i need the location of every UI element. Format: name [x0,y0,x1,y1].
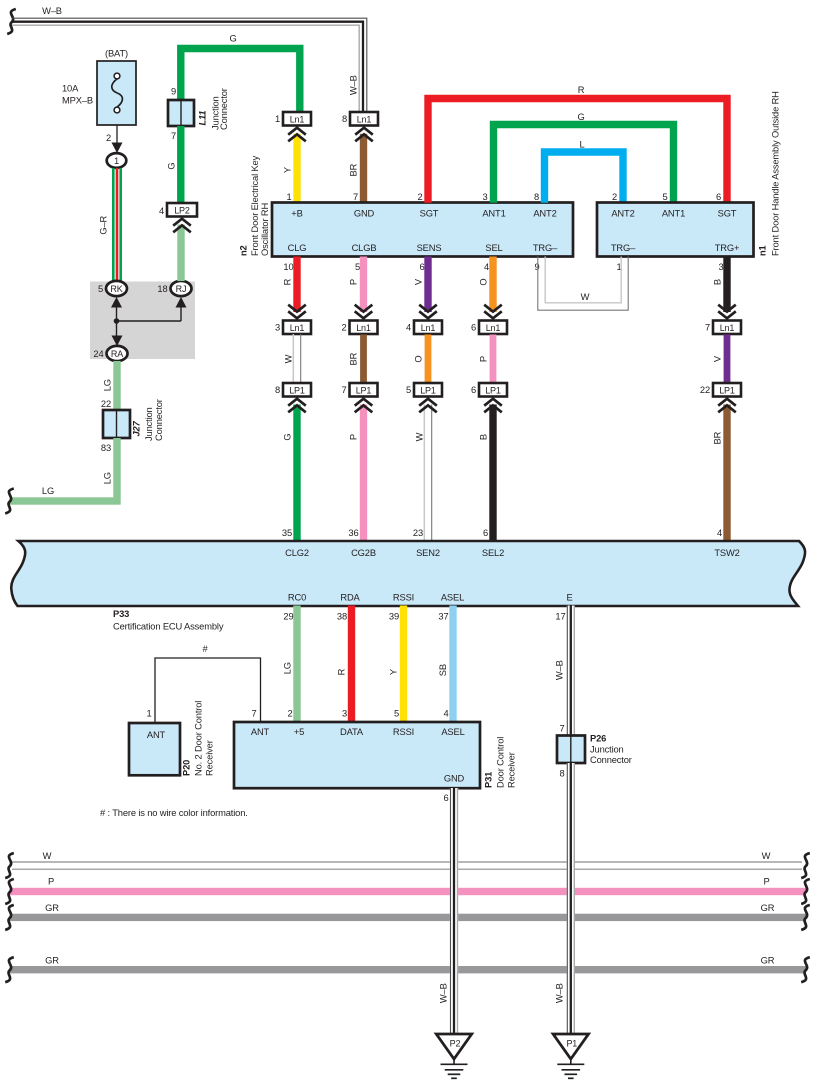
svg-text:Junction: Junction [144,407,154,441]
svg-text:1: 1 [114,156,119,166]
svg-text:W: W [43,851,52,861]
connector LP1 pin 5 [406,383,442,397]
wire P (bottom horizontal) [10,888,806,895]
pin 22 (J27) [101,399,111,409]
pin 5 (n1 ANT1) [662,192,667,202]
svg-text:1: 1 [275,114,280,124]
label W-B (P1 drop) [554,983,564,1003]
label W-B (E) [554,660,564,680]
label Y [282,166,292,173]
label GR (left 2) [45,956,59,966]
svg-text:1: 1 [286,192,291,202]
pin 29 (RC0) [283,612,293,622]
svg-text:W–B: W–B [348,75,358,95]
chevron to Ln1 pin 7 [718,305,736,319]
wire G (L11 up and over to Ln1 pin 1) [181,49,300,113]
wire W (TRG- link) [538,257,628,311]
svg-text:3: 3 [275,323,280,333]
svg-text:CG2B: CG2B [351,548,376,558]
pin 8 (P26) [559,769,564,779]
break symbols W wire [5,853,810,878]
label B (TRG+) [712,279,722,285]
svg-text:GR: GR [761,956,775,966]
chevron LP2 [173,219,191,233]
svg-text:ASEL: ASEL [441,593,464,603]
wire G (to CLG2) [293,405,300,541]
note about wire color [100,808,248,818]
connector Ln1 pin 4 [406,321,442,335]
svg-text:ANT2: ANT2 [533,209,556,219]
label W-B (GND drop upper) [438,983,448,1003]
svg-text:3: 3 [718,262,723,272]
svg-text:8: 8 [275,385,280,395]
wire W-B (P31 GND to ground P2) [450,788,458,1034]
internal wiring RK-RJ-RA with junction dot [111,297,187,346]
label SB (ASEL) [438,664,448,676]
svg-text:LG: LG [102,472,112,484]
label W-B (vertical drop) [348,75,358,95]
svg-text:Junction: Junction [590,745,624,755]
label J27 [131,399,164,441]
pin 1 (n1 TRG-) [616,262,621,272]
svg-text:10A: 10A [62,84,79,94]
svg-text:(BAT): (BAT) [105,49,128,59]
pin 5 (P31 RSSI) [394,709,399,719]
pin 7 (P31 ANT) [251,709,256,719]
wire B (to SEL2) [489,405,496,541]
pin 6 (n1 SGT) [716,192,721,202]
svg-text:R: R [578,85,585,95]
svg-text:CLGB: CLGB [352,243,377,253]
bus P33 Certification ECU Assembly (harness band) [11,541,805,606]
svg-text:Ln1: Ln1 [720,323,735,333]
junction connector P26 [557,736,585,764]
label GR (right 1) [761,903,775,913]
wire W (to SEN2) [424,405,431,541]
pin 37 (ASEL) [438,612,448,622]
pin 23 (SEN2) [413,528,423,538]
node 1 (connector joint) [107,153,127,168]
label O (col3) [413,356,423,363]
wire W (col1) [293,334,300,383]
svg-text:7: 7 [559,724,564,734]
svg-text:LG: LG [42,486,54,496]
svg-text:6: 6 [471,385,476,395]
svg-text:ANT1: ANT1 [662,209,685,219]
label BR (top) [348,163,358,176]
svg-text:GND: GND [354,209,375,219]
connector Ln1 pin 6 [471,321,507,335]
svg-text:Y: Y [282,166,292,173]
wire O (SEL) [489,257,496,313]
pin 7 (L11) [171,131,176,141]
wire break symbol left (LG) [5,489,14,514]
svg-text:7: 7 [171,131,176,141]
label P33 [113,609,224,632]
svg-text:5: 5 [394,709,399,719]
svg-text:B: B [712,279,722,285]
svg-text:Connector: Connector [154,399,164,441]
pin 7 (P26) [559,724,564,734]
svg-text:R: R [282,278,292,285]
svg-text:LP1: LP1 [356,385,372,395]
wire R (SGT link) [428,99,727,203]
svg-text:SGT: SGT [718,209,737,219]
junction connector J27 [103,410,130,438]
svg-text:5: 5 [355,262,360,272]
pin 6 (SEL2) [483,528,488,538]
label P (col4) [478,356,488,362]
pin 6 (P31 GND) [443,793,448,803]
pin 7 (n2 GND) [353,192,358,202]
pin 36 (CG2B) [348,528,358,538]
label GR (right 2) [761,956,775,966]
svg-text:P31: P31 [483,772,493,788]
svg-text:Oscillator RH: Oscillator RH [260,203,270,256]
connector Ln1 pin 2 [341,321,377,335]
svg-text:W: W [283,354,293,363]
wire LG (RC0) [293,606,300,723]
svg-text:BR: BR [712,431,722,444]
wire LG (LP2 to RJ) [177,225,184,282]
pin 6 (n2 SENS) [419,262,424,272]
svg-text:BR: BR [348,163,358,176]
svg-text:RC0: RC0 [288,593,306,603]
svg-text:7: 7 [251,709,256,719]
bus terminal labels (bottom row) [288,593,573,603]
svg-text:O: O [478,279,488,286]
svg-text:Connector: Connector [590,755,632,765]
chevron Ln1 pin 1 [288,128,306,142]
svg-text:2: 2 [106,133,111,143]
pin 2 (fuse output) [106,133,111,143]
junction connector L11 [168,100,194,126]
svg-text:Ln1: Ln1 [290,114,305,124]
label V (col5) [712,355,722,362]
pin 3 (n1 TRG+) [718,262,723,272]
label L (ANT2 link) [579,140,584,150]
pin 17 (E) [555,612,565,622]
label R (CLG) [282,278,292,285]
svg-text:39: 39 [389,612,399,622]
pin 5 (RK) [98,284,103,294]
svg-text:Front Door Electrical Key: Front Door Electrical Key [250,155,260,256]
svg-text:6: 6 [483,528,488,538]
pin 4 (P31 ASEL) [443,709,448,719]
pin 2 (P31 +5) [287,709,292,719]
svg-text:GND: GND [444,774,465,784]
label W (bottom right) [762,851,771,861]
connector Ln1 pin 1 (top) [275,112,311,126]
svg-text:5: 5 [98,284,103,294]
label W (bottom left) [43,851,52,861]
wire GR (bottom horizontal 1) [10,914,806,921]
label V (SENS) [413,278,423,285]
pin 10 (n2 CLG) [283,262,293,272]
pin 18 (RJ) [157,284,167,294]
svg-text:Receiver: Receiver [204,740,214,776]
pin 1 (n2 +B) [286,192,291,202]
node RJ [171,281,192,296]
svg-text:L: L [579,140,584,150]
svg-text:P: P [478,356,488,362]
label LG (horizontal) [42,486,54,496]
wire V (SENS) [424,257,431,313]
wire BR (GND feed) [360,134,367,203]
svg-text:2: 2 [287,709,292,719]
fuse 10A MPX-B (BAT) box [97,61,136,125]
svg-text:7: 7 [705,323,710,333]
svg-text:SENS: SENS [417,243,442,253]
svg-text:SEN2: SEN2 [416,548,440,558]
wire P (col4) [490,335,497,384]
wire Y (+B feed) [293,134,300,203]
svg-text:ANT1: ANT1 [482,209,505,219]
svg-text:+5: +5 [294,727,304,737]
svg-text:6: 6 [419,262,424,272]
svg-text:LP1: LP1 [289,385,305,395]
svg-text:RK: RK [110,284,122,294]
svg-text:Ln1: Ln1 [486,323,501,333]
label W (col1) [283,354,293,363]
svg-text:CLG2: CLG2 [285,548,309,558]
label G (L11-LP2) [166,163,176,170]
svg-text:35: 35 [282,528,292,538]
wire G-R (node 1 to RK) [112,168,122,281]
pin 39 (RSSI) [389,612,399,622]
label B (SEL2) [478,434,488,440]
svg-text:6: 6 [443,793,448,803]
svg-text:TRG–: TRG– [611,243,636,253]
svg-text:Connector: Connector [219,88,229,130]
svg-text:ANT2: ANT2 [611,209,634,219]
svg-text:RSSI: RSSI [393,727,414,737]
pin 3 (P31 DATA) [342,709,347,719]
label BR (TSW2) [712,431,722,444]
svg-text:Ln1: Ln1 [356,323,371,333]
connector LP1 pin 8 [275,383,311,397]
svg-text:E: E [566,593,572,603]
svg-text:G: G [577,112,584,122]
svg-text:TRG–: TRG– [533,243,558,253]
svg-text:LG: LG [102,379,112,391]
svg-text:8: 8 [559,769,564,779]
svg-text:24: 24 [93,349,103,359]
svg-text:7: 7 [353,192,358,202]
label GR (left 1) [45,903,59,913]
svg-text:No. 2 Door Control: No. 2 Door Control [193,701,203,776]
svg-text:SB: SB [438,664,448,676]
svg-text:BR: BR [348,352,358,365]
svg-text:O: O [413,356,423,363]
svg-text:V: V [413,278,423,285]
wire P (CLGB) [360,257,367,313]
svg-text:3: 3 [342,709,347,719]
svg-text:Door Control: Door Control [495,737,505,788]
svg-text:Receiver: Receiver [506,752,516,788]
svg-text:2: 2 [341,323,346,333]
pin 8 (n2 ANT2) [534,192,539,202]
svg-text:n1: n1 [757,245,767,256]
svg-text:W–B: W–B [438,983,448,1003]
chevron to Ln1 pin 2 [355,305,373,319]
wire GR (bottom horizontal 2) [10,966,806,973]
pin 9 (L11) [171,87,176,97]
svg-text:4: 4 [406,323,411,333]
wire L (ANT2 link) [545,152,624,203]
svg-text:DATA: DATA [340,727,364,737]
svg-text:P1: P1 [566,1039,577,1049]
svg-text:MPX–B: MPX–B [62,96,93,106]
label # [202,644,208,654]
label L11 [197,88,229,130]
fuse element symbol [112,73,123,113]
svg-text:W–B: W–B [42,6,62,16]
pin 1 (P20 ANT) [146,709,151,719]
svg-text:P: P [348,434,358,440]
label n2 [238,155,269,256]
wire P (to CG2B) [360,405,367,541]
label W-B (top wire) [42,6,62,16]
wire BR (col2) [360,335,367,384]
wire LG (RA to J27) [113,361,120,410]
label P (CG2B) [348,434,358,440]
svg-text:LP1: LP1 [719,385,735,395]
svg-text:Certification ECU Assembly: Certification ECU Assembly [113,622,224,632]
connector Ln1 pin 7 [705,321,741,335]
svg-text:L11: L11 [197,111,207,126]
chevron to Ln1 pin 4 [419,305,437,319]
svg-text:RDA: RDA [340,593,360,603]
svg-text:4: 4 [717,528,722,538]
node RK [106,281,127,296]
svg-text:1: 1 [146,709,151,719]
svg-text:RA: RA [111,349,123,359]
label G (top) [229,34,236,44]
svg-text:GR: GR [45,956,59,966]
svg-text:LP1: LP1 [485,385,501,395]
svg-text:29: 29 [283,612,293,622]
svg-text:J27: J27 [131,420,141,436]
svg-text:P20: P20 [181,760,191,776]
chevron to Ln1 pin 3 [288,305,306,319]
wire W-B (E to P26) [567,606,575,736]
svg-text:LG: LG [282,662,292,674]
svg-text:RSSI: RSSI [393,593,414,603]
label R (RDA) [336,668,346,675]
svg-text:GR: GR [761,903,775,913]
label P (bottom left) [48,877,54,887]
bus terminal labels (top row) [285,548,740,558]
svg-text:P: P [48,877,54,887]
wire LG (J27 to left edge) [10,438,121,505]
break symbols GR wire 2 [5,957,810,982]
connector LP1 pin 22 [700,383,741,397]
svg-text:# : There is no wire color inf: # : There is no wire color information. [100,808,248,818]
svg-text:22: 22 [700,385,710,395]
svg-text:36: 36 [348,528,358,538]
svg-text:TSW2: TSW2 [714,548,739,558]
label P31 [483,737,516,788]
svg-text:P33: P33 [113,609,129,619]
svg-text:5: 5 [662,192,667,202]
label G-R [98,215,108,234]
svg-text:n2: n2 [238,245,248,256]
svg-text:9: 9 [171,87,176,97]
door handle n1 Front Door Handle Assembly Outside RH [597,203,754,257]
pin 3 (n2 ANT1) [482,192,487,202]
pin 4 (n2 SEL) [484,262,489,272]
chevron LP1 pin 8 [288,399,306,413]
pin 2 (n2 SGT) [417,192,422,202]
svg-text:38: 38 [337,612,347,622]
svg-text:Y: Y [388,668,398,675]
svg-text:W: W [581,292,590,302]
wire Y (RSSI) [400,606,407,723]
pin 35 (CLG2) [282,528,292,538]
label W (TRG- link) [581,292,590,302]
svg-text:P2: P2 [450,1039,461,1049]
wire fuse to node 1 [116,125,118,146]
svg-text:TRG+: TRG+ [715,243,740,253]
wire break symbol top-left [7,9,16,34]
svg-text:4: 4 [484,262,489,272]
connector LP2 [167,203,197,217]
svg-text:P: P [348,279,358,285]
label G (CLG2) [282,434,292,441]
label W (SEN2) [414,432,424,441]
label P20 [181,701,214,776]
wire BR (to TSW2) [723,405,730,541]
svg-text:Ln1: Ln1 [421,323,436,333]
svg-text:4: 4 [443,709,448,719]
label P26 [590,734,632,766]
wire W-B battery feed (top horizontal + vertical to Ln1 pin 8) [12,18,367,112]
svg-text:18: 18 [157,284,167,294]
svg-text:SEL: SEL [485,243,502,253]
label R (SGT link) [578,85,585,95]
svg-text:LP2: LP2 [174,205,190,215]
chevron LP1 pin 7 [355,399,373,413]
svg-text:W–B: W–B [554,983,564,1003]
ground P1 [553,1034,588,1078]
arrow into node 1 [112,143,123,154]
svg-text:17: 17 [555,612,565,622]
relay block (shaded) [90,282,195,360]
chevron to Ln1 pin 6 [484,305,502,319]
receiver P31 Door Control Receiver [234,722,480,788]
svg-text:G: G [282,434,292,441]
pin 83 (J27) [101,443,111,453]
svg-text:83: 83 [101,443,111,453]
label n1 [757,91,780,256]
svg-text:Front Door Handle Assembly Out: Front Door Handle Assembly Outside RH [770,91,780,256]
svg-text:W–B: W–B [554,660,564,680]
svg-text:G: G [166,163,176,170]
wire R (CLG) [293,257,300,313]
connector Ln1 pin 3 [275,321,311,335]
label LG (below J27) [102,472,112,484]
label G (ANT1 link) [577,112,584,122]
wire W-B (P26 to ground P1) [567,763,575,1034]
pin 4 (LP2) [159,206,164,216]
pin 2 (n1 ANT2) [612,192,617,202]
wire # (P20 ANT to P31 ANT) [155,658,261,723]
connector Ln1 pin 8 (top) [342,112,378,126]
wire V (col5) [724,335,731,384]
svg-text:Ln1: Ln1 [357,114,372,124]
wire G (ANT1 link) [494,125,674,203]
